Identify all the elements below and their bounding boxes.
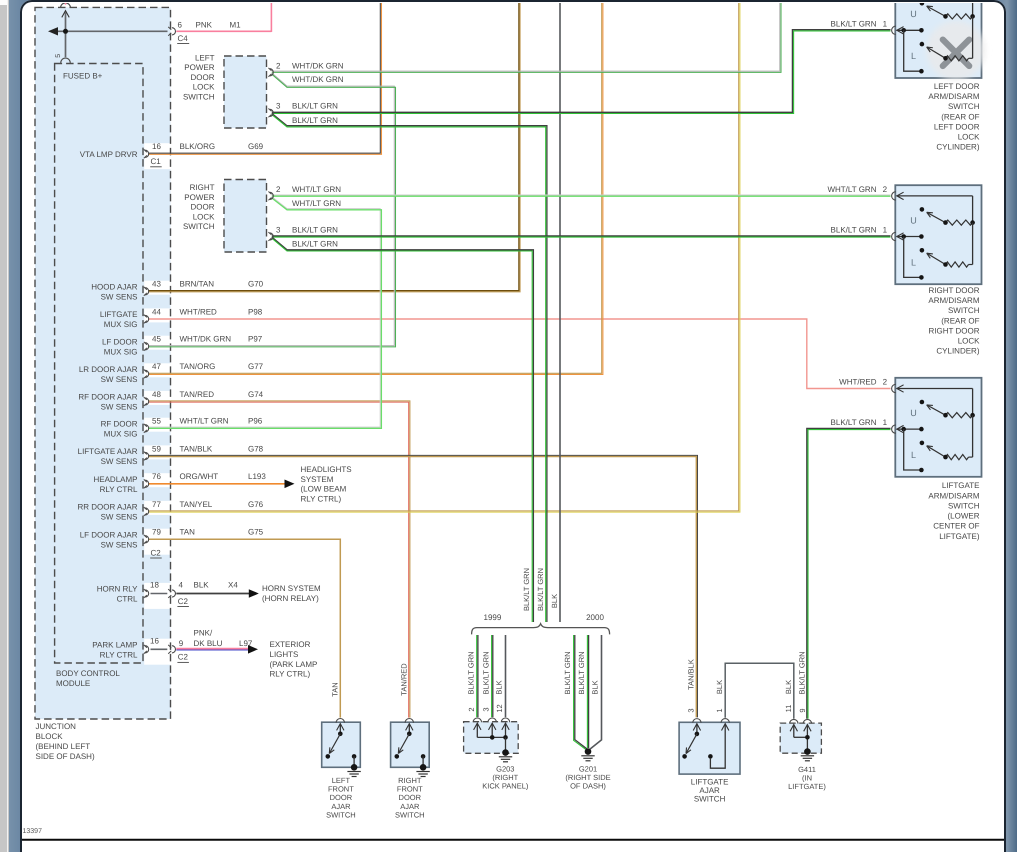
svg-text:RLY CTRL): RLY CTRL) <box>270 670 311 679</box>
svg-text:C2: C2 <box>178 653 189 662</box>
svg-text:SWITCH: SWITCH <box>183 92 215 101</box>
svg-text:2: 2 <box>467 707 476 711</box>
svg-text:LEFT: LEFT <box>332 776 351 785</box>
svg-text:LEFT DOOR: LEFT DOOR <box>934 122 980 131</box>
svg-text:SWITCH: SWITCH <box>326 810 356 819</box>
svg-text:2: 2 <box>276 61 281 70</box>
svg-text:MODULE: MODULE <box>56 679 90 688</box>
svg-text:BLK/LT GRN: BLK/LT GRN <box>831 418 877 427</box>
svg-text:44: 44 <box>152 307 161 316</box>
svg-text:P98: P98 <box>248 307 263 316</box>
svg-text:BLK/LT GRN: BLK/LT GRN <box>563 651 572 694</box>
svg-text:BLK/LT GRN: BLK/LT GRN <box>481 651 490 694</box>
svg-text:77: 77 <box>152 500 161 509</box>
svg-text:SW SENS: SW SENS <box>101 541 138 550</box>
svg-text:SW SENS: SW SENS <box>101 293 138 302</box>
svg-text:RIGHT DOOR: RIGHT DOOR <box>929 326 980 335</box>
svg-text:U: U <box>910 408 917 418</box>
svg-text:LIFTGATE: LIFTGATE <box>942 481 980 490</box>
svg-text:59: 59 <box>152 444 161 453</box>
svg-text:TAN/ORG: TAN/ORG <box>180 362 216 371</box>
svg-text:DOOR: DOOR <box>191 203 215 212</box>
svg-text:1: 1 <box>883 418 888 427</box>
svg-text:WHT/RED: WHT/RED <box>839 377 877 386</box>
svg-text:BLK/ORG: BLK/ORG <box>180 142 216 151</box>
svg-text:LOCK: LOCK <box>193 83 215 92</box>
svg-text:M1: M1 <box>230 20 242 29</box>
svg-text:JUNCTION: JUNCTION <box>36 722 77 731</box>
svg-text:1: 1 <box>715 708 724 712</box>
svg-text:BLK/LT GRN: BLK/LT GRN <box>522 568 531 611</box>
svg-text:G78: G78 <box>248 444 264 453</box>
svg-text:(PARK LAMP: (PARK LAMP <box>270 660 318 669</box>
svg-text:TAN: TAN <box>330 682 339 696</box>
svg-text:BLK: BLK <box>591 680 600 694</box>
svg-text:RR DOOR AJAR: RR DOOR AJAR <box>77 503 137 512</box>
svg-text:U: U <box>910 9 917 19</box>
svg-text:(BEHIND LEFT: (BEHIND LEFT <box>36 742 91 751</box>
svg-text:45: 45 <box>152 335 161 344</box>
svg-text:43: 43 <box>152 280 161 289</box>
svg-text:ARM/DISARM: ARM/DISARM <box>928 491 979 500</box>
svg-text:P96: P96 <box>248 417 263 426</box>
svg-text:3: 3 <box>482 707 491 711</box>
svg-text:L193: L193 <box>248 472 266 481</box>
svg-text:DOOR: DOOR <box>330 793 353 802</box>
svg-text:76: 76 <box>152 472 161 481</box>
svg-text:C2: C2 <box>178 597 189 606</box>
svg-text:79: 79 <box>152 528 161 537</box>
svg-text:TAN/BLK: TAN/BLK <box>180 444 213 453</box>
svg-text:RIGHT DOOR: RIGHT DOOR <box>929 286 980 295</box>
svg-text:SW SENS: SW SENS <box>101 513 138 522</box>
svg-text:X4: X4 <box>228 581 238 590</box>
svg-text:WHT/LT GRN: WHT/LT GRN <box>180 417 229 426</box>
svg-text:MUX SIG: MUX SIG <box>104 430 138 439</box>
svg-text:WHT/LT GRN: WHT/LT GRN <box>292 199 341 208</box>
svg-text:LIFTGATE AJAR: LIFTGATE AJAR <box>78 447 138 456</box>
svg-text:TAN/BLK: TAN/BLK <box>687 659 696 690</box>
svg-text:L: L <box>911 257 916 267</box>
svg-text:TAN/RED: TAN/RED <box>180 390 215 399</box>
svg-text:BLK/LT GRN: BLK/LT GRN <box>292 225 338 234</box>
svg-text:DOOR: DOOR <box>399 793 422 802</box>
svg-text:HEADLIGHTS: HEADLIGHTS <box>301 465 352 474</box>
svg-text:AJAR: AJAR <box>331 802 351 811</box>
svg-text:BLK/LT GRN: BLK/LT GRN <box>798 651 807 694</box>
svg-text:SW SENS: SW SENS <box>101 375 138 384</box>
svg-text:LOCK: LOCK <box>193 212 215 221</box>
svg-text:TAN/RED: TAN/RED <box>400 663 409 696</box>
svg-text:VTA LMP DRVR: VTA LMP DRVR <box>80 150 138 159</box>
svg-text:CYLINDER): CYLINDER) <box>936 347 979 356</box>
svg-text:(HORN RELAY): (HORN RELAY) <box>262 594 319 603</box>
svg-text:FRONT: FRONT <box>328 784 354 793</box>
svg-text:HORN SYSTEM: HORN SYSTEM <box>262 584 321 593</box>
svg-text:DK BLU: DK BLU <box>194 639 223 648</box>
svg-text:L: L <box>911 450 916 460</box>
svg-text:SWITCH: SWITCH <box>948 306 980 315</box>
svg-text:LIFTGATE): LIFTGATE) <box>939 532 980 541</box>
svg-text:WHT/LT GRN: WHT/LT GRN <box>827 185 876 194</box>
svg-text:BODY CONTROL: BODY CONTROL <box>56 669 120 678</box>
svg-text:C2: C2 <box>151 548 162 557</box>
svg-text:SW SENS: SW SENS <box>101 403 138 412</box>
svg-text:LEFT DOOR: LEFT DOOR <box>934 82 980 91</box>
svg-text:POWER: POWER <box>184 63 214 72</box>
svg-text:BLK/LT GRN: BLK/LT GRN <box>292 116 338 125</box>
svg-text:FUSED B+: FUSED B+ <box>63 72 103 81</box>
svg-text:6: 6 <box>178 20 183 29</box>
svg-text:P97: P97 <box>248 335 263 344</box>
svg-text:BLOCK: BLOCK <box>36 732 64 741</box>
svg-text:C1: C1 <box>151 157 162 166</box>
svg-text:G74: G74 <box>248 390 264 399</box>
svg-text:1: 1 <box>883 20 888 29</box>
svg-text:(LOWER: (LOWER <box>948 512 980 521</box>
svg-text:RLY CTRL: RLY CTRL <box>100 651 138 660</box>
svg-text:2: 2 <box>883 185 888 194</box>
svg-text:L: L <box>911 51 916 61</box>
svg-text:13397: 13397 <box>23 828 43 835</box>
svg-text:(LOW BEAM: (LOW BEAM <box>301 485 347 494</box>
svg-text:BRN/TAN: BRN/TAN <box>180 280 215 289</box>
svg-text:G75: G75 <box>248 528 264 537</box>
svg-text:KICK PANEL): KICK PANEL) <box>482 781 529 790</box>
svg-text:TAN: TAN <box>180 528 196 537</box>
svg-text:4: 4 <box>179 581 184 590</box>
svg-text:WHT/DK GRN: WHT/DK GRN <box>292 61 344 70</box>
svg-text:SWITCH: SWITCH <box>395 810 425 819</box>
svg-text:C4: C4 <box>178 34 189 43</box>
svg-text:RF DOOR: RF DOOR <box>101 420 138 429</box>
svg-text:BLK/LT GRN: BLK/LT GRN <box>466 651 475 694</box>
svg-text:U: U <box>910 215 917 225</box>
svg-text:LEFT: LEFT <box>195 54 215 63</box>
svg-text:5: 5 <box>55 54 62 58</box>
svg-text:SYSTEM: SYSTEM <box>301 475 334 484</box>
svg-text:(REAR OF: (REAR OF <box>941 112 979 121</box>
svg-text:MUX SIG: MUX SIG <box>104 320 138 329</box>
svg-text:BLK/LT GRN: BLK/LT GRN <box>536 568 545 611</box>
svg-text:55: 55 <box>152 417 161 426</box>
svg-text:ARM/DISARM: ARM/DISARM <box>928 296 979 305</box>
svg-text:BLK: BLK <box>715 680 724 694</box>
svg-text:47: 47 <box>152 362 161 371</box>
svg-text:RF DOOR AJAR: RF DOOR AJAR <box>78 393 137 402</box>
svg-text:AJAR: AJAR <box>400 802 420 811</box>
svg-text:RLY CTRL): RLY CTRL) <box>301 495 342 504</box>
svg-text:G76: G76 <box>248 500 264 509</box>
svg-text:ARM/DISARM: ARM/DISARM <box>928 92 979 101</box>
svg-text:LIGHTS: LIGHTS <box>270 650 299 659</box>
svg-text:PNK/: PNK/ <box>194 628 213 637</box>
svg-text:2000: 2000 <box>586 613 604 622</box>
svg-text:3: 3 <box>687 708 696 712</box>
svg-text:LF DOOR AJAR: LF DOOR AJAR <box>80 531 138 540</box>
svg-text:SWITCH: SWITCH <box>948 501 980 510</box>
svg-text:PNK: PNK <box>196 20 213 29</box>
svg-text:CENTER OF: CENTER OF <box>933 522 979 531</box>
svg-text:2: 2 <box>276 185 281 194</box>
svg-text:SW SENS: SW SENS <box>101 457 138 466</box>
svg-text:BLK/LT GRN: BLK/LT GRN <box>577 651 586 694</box>
svg-text:SWITCH: SWITCH <box>948 102 980 111</box>
svg-text:G69: G69 <box>248 142 264 151</box>
svg-text:SIDE OF DASH): SIDE OF DASH) <box>36 752 95 761</box>
svg-text:L97: L97 <box>239 639 253 648</box>
svg-text:CTRL: CTRL <box>117 595 138 604</box>
svg-text:TAN/YEL: TAN/YEL <box>180 500 213 509</box>
svg-text:G77: G77 <box>248 362 264 371</box>
svg-text:11: 11 <box>784 705 793 713</box>
svg-text:3: 3 <box>276 225 281 234</box>
svg-text:EXTERIOR: EXTERIOR <box>270 640 311 649</box>
svg-text:LIFTGATE: LIFTGATE <box>100 310 138 319</box>
svg-text:LIFTGATE): LIFTGATE) <box>788 782 826 791</box>
svg-text:PARK LAMP: PARK LAMP <box>92 641 137 650</box>
svg-text:1: 1 <box>883 226 888 235</box>
svg-text:RIGHT: RIGHT <box>398 776 422 785</box>
svg-text:BLK: BLK <box>495 680 504 694</box>
svg-text:FRONT: FRONT <box>397 784 423 793</box>
svg-text:WHT/RED: WHT/RED <box>180 307 218 316</box>
svg-text:3: 3 <box>276 101 281 110</box>
svg-text:WHT/DK GRN: WHT/DK GRN <box>180 335 232 344</box>
svg-text:9: 9 <box>179 639 184 648</box>
svg-text:HOOD AJAR: HOOD AJAR <box>91 283 137 292</box>
svg-text:LF DOOR: LF DOOR <box>102 338 138 347</box>
svg-text:WHT/LT GRN: WHT/LT GRN <box>292 185 341 194</box>
svg-text:RIGHT: RIGHT <box>190 183 215 192</box>
svg-text:16: 16 <box>152 142 161 151</box>
svg-text:18: 18 <box>150 581 159 590</box>
svg-text:G70: G70 <box>248 280 264 289</box>
svg-text:1999: 1999 <box>484 613 502 622</box>
svg-text:BLK/LT GRN: BLK/LT GRN <box>831 20 877 29</box>
svg-text:HORN RLY: HORN RLY <box>97 585 138 594</box>
svg-text:BLK/LT GRN: BLK/LT GRN <box>292 101 338 110</box>
svg-text:BLK/LT GRN: BLK/LT GRN <box>831 226 877 235</box>
svg-text:WHT/DK GRN: WHT/DK GRN <box>292 75 344 84</box>
svg-text:2: 2 <box>883 377 888 386</box>
svg-text:LOCK: LOCK <box>958 133 980 142</box>
svg-text:POWER: POWER <box>184 193 214 202</box>
svg-text:BLK/LT GRN: BLK/LT GRN <box>292 240 338 249</box>
svg-text:LR DOOR AJAR: LR DOOR AJAR <box>79 365 138 374</box>
svg-text:MUX SIG: MUX SIG <box>104 348 138 357</box>
svg-text:CYLINDER): CYLINDER) <box>936 143 979 152</box>
svg-text:SWITCH: SWITCH <box>694 794 726 803</box>
svg-text:LOCK: LOCK <box>958 337 980 346</box>
svg-text:BLK: BLK <box>194 581 210 590</box>
svg-text:SWITCH: SWITCH <box>183 222 215 231</box>
svg-text:(REAR OF: (REAR OF <box>941 316 979 325</box>
svg-text:BLK: BLK <box>784 680 793 694</box>
svg-text:DOOR: DOOR <box>191 73 215 82</box>
svg-text:OF DASH): OF DASH) <box>570 781 606 790</box>
svg-text:16: 16 <box>150 637 159 646</box>
svg-text:ORG/WHT: ORG/WHT <box>180 472 219 481</box>
svg-text:48: 48 <box>152 390 161 399</box>
svg-text:RLY CTRL: RLY CTRL <box>100 485 138 494</box>
svg-text:12: 12 <box>495 704 504 712</box>
svg-text:HEADLAMP: HEADLAMP <box>93 475 137 484</box>
svg-text:BLK: BLK <box>550 594 559 608</box>
svg-text:9: 9 <box>798 708 807 712</box>
